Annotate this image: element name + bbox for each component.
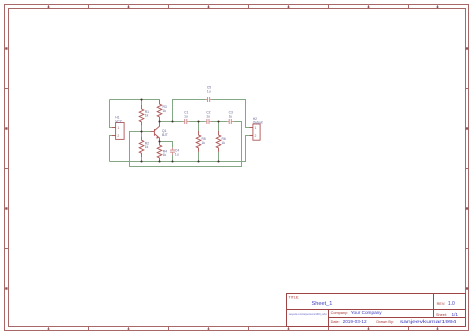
svg-text:1/1: 1/1	[452, 312, 459, 317]
wire R5 top lead	[198, 122, 200, 132]
capacitor C1	[183, 121, 185, 123]
label R2 value	[145, 141, 149, 149]
svg-text:2: 2	[117, 134, 119, 138]
svg-text:1k: 1k	[222, 141, 226, 145]
wire feedback path	[130, 122, 242, 167]
svg-text:Output: Output	[253, 121, 263, 125]
wire R6 bottom lead	[218, 152, 220, 162]
wire C5 to H2 pin1	[212, 100, 253, 128]
svg-text:1k: 1k	[163, 153, 167, 157]
svg-text:VCC: VCC	[115, 120, 123, 124]
label H2 Output	[253, 117, 263, 125]
wire base node to Q1 base	[142, 131, 151, 133]
transistor Q1 emitter arrow	[156, 136, 159, 138]
capacitor C3	[227, 121, 229, 123]
svg-text:1u: 1u	[206, 115, 210, 119]
svg-text:TITLE:: TITLE:	[289, 295, 300, 299]
svg-text:1u: 1u	[207, 90, 211, 94]
svg-text:1: 1	[117, 126, 119, 130]
svg-text:1u: 1u	[229, 115, 233, 119]
label H1 VCC	[115, 116, 123, 124]
capacitor C5	[206, 99, 208, 101]
connector H1	[112, 123, 124, 140]
label R1 value	[145, 110, 149, 118]
svg-text:Your Company: Your Company	[351, 310, 382, 315]
wire VCC drop to H1 pin1	[110, 100, 116, 128]
label R6 value	[222, 137, 226, 145]
svg-text:1k: 1k	[145, 114, 149, 118]
svg-text:Drawn By:: Drawn By:	[376, 320, 394, 324]
wire H1 pin2 to ground rail	[110, 136, 116, 162]
label R5 value	[202, 137, 206, 145]
wire VCC rail	[110, 99, 160, 101]
transistor Q1	[151, 122, 160, 142]
wire R5 bottom lead	[198, 152, 200, 162]
wire collector to C1	[160, 121, 183, 123]
svg-text:BJT: BJT	[162, 133, 168, 137]
wire emitter node to C4	[160, 142, 173, 148]
wire R2 bottom to ground	[141, 157, 143, 161]
label C5 value	[207, 86, 211, 94]
svg-text:1: 1	[255, 126, 257, 130]
resistor R2	[139, 136, 144, 157]
wire R1 top lead	[141, 100, 143, 106]
svg-text:REV:: REV:	[437, 302, 446, 306]
wire C1 to C2	[189, 121, 205, 123]
resistor R4	[157, 142, 162, 162]
connector H2 pin numbers	[255, 126, 257, 138]
connector H2	[250, 124, 261, 140]
junction dots	[140, 98, 219, 162]
svg-text:2: 2	[255, 134, 257, 138]
wire R1 bottom to base node	[141, 126, 143, 132]
svg-text:Sheet:: Sheet:	[436, 313, 447, 317]
svg-text:1u: 1u	[184, 115, 188, 119]
wire ground rail	[110, 136, 253, 162]
wire C4 to ground	[172, 155, 174, 161]
wire base node to R2	[141, 132, 143, 137]
svg-text:sanjeevkumar1994: sanjeevkumar1994	[400, 319, 457, 325]
svg-text:1u: 1u	[175, 153, 179, 157]
svg-text:Sheet_1: Sheet_1	[312, 301, 333, 307]
resistor R3	[157, 100, 162, 122]
label C4 value	[175, 149, 179, 157]
label R3 value	[163, 105, 167, 113]
label C3 value	[229, 111, 233, 119]
svg-text:easyeda.com/sanjeevkumar1994_o: easyeda.com/sanjeevkumar1994_oshw	[289, 312, 328, 316]
connector H1 pin numbers	[117, 126, 119, 138]
label Q1 BJT	[162, 129, 168, 137]
wire C2 to C3	[211, 121, 227, 123]
resistor R1	[139, 105, 144, 126]
label R4 value	[163, 149, 167, 157]
svg-text:Date:: Date:	[331, 320, 340, 324]
svg-text:1k: 1k	[163, 109, 167, 113]
capacitor C4	[172, 148, 174, 150]
title block frame	[287, 294, 466, 327]
wire C5 branch up	[173, 100, 206, 122]
svg-text:1k: 1k	[145, 145, 149, 149]
svg-text:1k: 1k	[202, 141, 206, 145]
resistor R5	[196, 131, 201, 152]
wire R6 top lead	[218, 122, 220, 132]
label C2 value	[206, 111, 210, 119]
svg-text:1.0: 1.0	[448, 301, 455, 307]
label C1 value	[184, 111, 188, 119]
svg-text:2019-03-12: 2019-03-12	[343, 319, 367, 324]
svg-text:Company:: Company:	[331, 311, 348, 315]
capacitor C2	[205, 121, 207, 123]
resistor R6	[216, 131, 221, 152]
